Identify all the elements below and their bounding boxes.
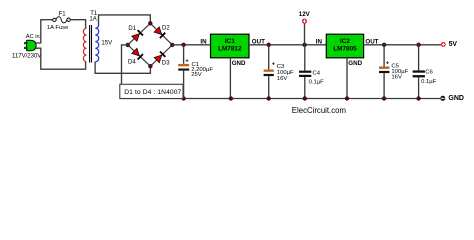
wire C5 top lead [383,45,385,67]
wire fuse to transformer primary [70,20,85,28]
wire C6 bottom lead [418,77,420,98]
svg-text:D3: D3 [162,60,170,66]
svg-text:IN: IN [316,39,323,46]
node left of bridge [126,43,130,47]
svg-text:0.1µF: 0.1µF [421,79,437,85]
svg-text:LM7812: LM7812 [218,46,242,53]
svg-text:GND: GND [348,60,362,67]
svg-text:GND: GND [232,60,246,67]
capacitor C3 [264,61,276,76]
connector J1 AC plug [25,40,37,51]
svg-text:5V: 5V [449,41,458,48]
transformer T1 secondary coil [95,26,99,62]
node bottom of bridge [148,64,152,68]
node top of bridge [148,21,152,25]
wire plug top stub [36,20,41,43]
wire IC2 OUT to 5V [364,44,441,46]
svg-text:LM7805: LM7805 [333,46,357,53]
node rail IC1 GND [229,96,233,100]
svg-text:1A: 1A [89,16,96,22]
svg-text:GND: GND [448,95,464,102]
wire C1 bottom lead [183,71,185,99]
node junction C5 top [382,43,386,47]
wire plug bottom stub [36,48,86,69]
capacitor C6 [413,70,425,77]
bridge rectifier diamond wires [128,23,173,66]
wire bridge left node to ground rail [122,45,128,84]
node junction 12V / C4 [302,43,306,47]
diode D4 [132,48,143,59]
svg-text:C3: C3 [277,64,285,70]
svg-text:AC in: AC in [26,34,40,40]
node rail C1 [181,96,185,100]
node junction C6 top [416,43,420,47]
diode D1 [132,30,143,41]
wire IC2 GND pin [346,58,348,99]
wire C1 top lead [183,45,185,64]
regulator IC2 [326,34,363,58]
node junction C3 top [267,43,271,47]
svg-text:IC2: IC2 [340,38,350,45]
transformer core [89,25,91,63]
node right of bridge [170,43,174,47]
svg-text:C6: C6 [425,70,433,76]
wire C3 top lead [268,45,270,70]
svg-text:F1: F1 [59,12,67,18]
wire top AC line to fuse [40,19,53,21]
svg-text:25V: 25V [191,72,202,78]
svg-text:IC1: IC1 [225,38,235,45]
svg-text:D4: D4 [128,59,136,65]
wire bridge right node to IC1 IN [172,44,210,46]
wire C4 top lead [304,45,306,71]
svg-text:ElecCircuit.com: ElecCircuit.com [292,106,346,115]
capacitor C1 [178,58,189,70]
wire C5 bottom lead [383,73,385,98]
wire C3 bottom lead [268,76,270,98]
svg-text:1A Fuse: 1A Fuse [47,25,69,31]
diode D3 [154,52,165,63]
wire IC1 GND pin [229,58,231,99]
terminal GND [440,96,445,101]
svg-text:0.1µF: 0.1µF [309,80,325,86]
node rail C6 [416,96,420,100]
node rail IC2 GND [345,96,349,100]
terminal 5V [441,42,446,47]
capacitor C5 [379,61,390,73]
node rail C4 [303,96,307,100]
wire 12V tap [304,23,306,44]
node rail C5 [382,96,386,100]
regulator IC1 [211,34,250,58]
node rail C3 [267,96,271,100]
capacitor C4 [299,71,311,77]
wire secondary bottom to bridge bottom node [95,62,150,74]
svg-text:D2: D2 [162,26,170,32]
wire C6 top lead [418,45,420,71]
fuse F1 [53,17,71,23]
terminal 12V [302,19,307,24]
svg-text:16V: 16V [277,76,288,82]
transformer T1 primary coil [83,27,86,63]
svg-text:117V/230V: 117V/230V [12,54,41,60]
diode D2 [154,27,165,38]
svg-text:D1: D1 [128,26,136,32]
svg-text:12V: 12V [299,11,311,18]
svg-text:15V: 15V [101,41,112,47]
wire IC1 OUT to IC2 IN [249,44,326,46]
node junction C1 top [181,43,185,47]
wire secondary top to bridge [99,15,151,26]
svg-text:C4: C4 [313,70,321,76]
wire ground rail [120,98,441,100]
svg-text:D1 to D4 : 1N4007: D1 to D4 : 1N4007 [124,89,181,96]
note box D1 to D4 [120,84,183,98]
svg-text:IN: IN [200,39,207,46]
wire C4 bottom lead [304,77,306,99]
svg-text:16V: 16V [391,75,402,81]
